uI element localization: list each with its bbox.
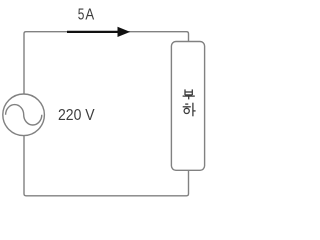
- AC source U1 (circle with sine): [3, 94, 45, 136]
- current arrow (5 A direction): [67, 27, 130, 37]
- label: 부 (load, first Hangul syllable) drawn as strokes: [183, 89, 195, 99]
- svg-text:5: 5: [78, 7, 85, 24]
- svg-text:220 V: 220 V: [58, 107, 95, 124]
- wire: top conductor from source to load: [24, 32, 189, 94]
- label: 하 (load, second Hangul syllable) drawn as strokes: [183, 103, 196, 117]
- load box (부하): [171, 42, 204, 171]
- wire: bottom return conductor: [24, 136, 189, 196]
- svg-text:A: A: [85, 7, 94, 24]
- AC sine symbol: [6, 105, 42, 125]
